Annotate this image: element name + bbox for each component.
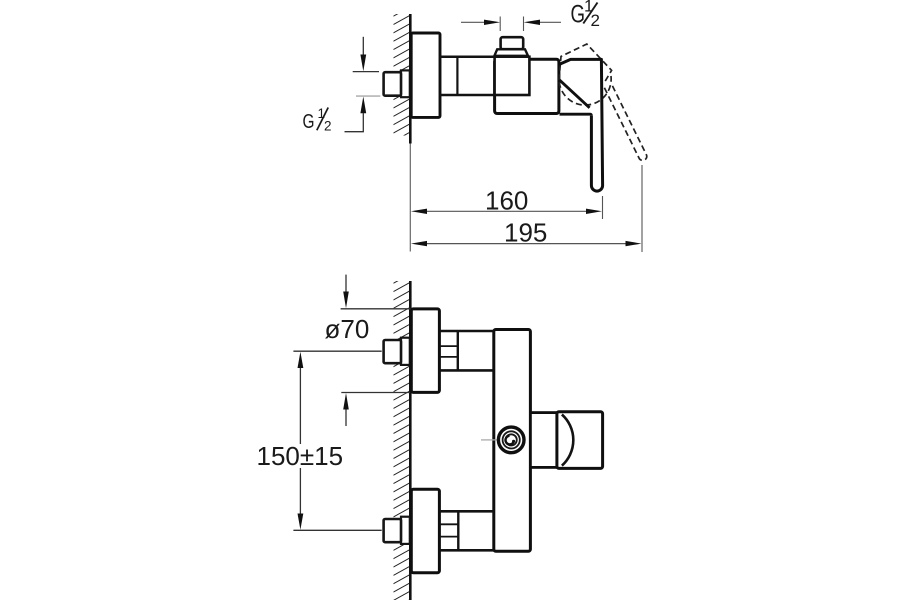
G1/2 dimension right line+arrow: [524, 20, 561, 25]
dashed handle knob alternate position (tilted): [559, 44, 612, 84]
wall extension line down to dimension lines: [409, 144, 411, 252]
screw boss middle ring: [503, 431, 520, 448]
screw inner circle: [506, 434, 517, 445]
svg-text:150±15: 150±15: [257, 441, 344, 471]
extension line at square bottom (light): [356, 95, 380, 97]
extension line left of cap: [499, 17, 501, 32]
escutcheon flange (top view): [411, 33, 440, 117]
lower inlet square (lower view): [384, 519, 401, 542]
upper connection pipe (lower view): [440, 331, 494, 370]
label G1/2 (left): [303, 106, 332, 134]
wall hatching (lower view): [394, 281, 410, 600]
dimension 150±15: [254, 351, 382, 530]
dimension 160: [411, 185, 602, 215]
centerline tick left of screw: [481, 439, 497, 441]
wall hatching (top view): [394, 14, 410, 136]
G1/2 dimension (top, cap width): left line+arrow: [461, 20, 500, 25]
extension line at lever end (160): [602, 196, 604, 219]
svg-text:ø70: ø70: [325, 314, 370, 344]
dimension ø70: top arrow: [343, 275, 349, 309]
upper escutcheon (lower view): [411, 309, 439, 393]
handle underside line to body: [560, 114, 592, 116]
bottom arrow of ø70: [343, 393, 349, 426]
solid handle knob and lever (top view): [559, 59, 603, 191]
lever end curve: [562, 415, 573, 466]
lower inlet collar (lower view): [401, 517, 410, 544]
svg-text:2: 2: [591, 11, 600, 30]
inlet collar at wall (top view): [401, 70, 410, 97]
dashed lever alternate position: [604, 84, 646, 160]
wall face line (lower view): [409, 281, 412, 600]
svg-text:G: G: [303, 111, 315, 133]
lower connection pipe (lower view): [440, 511, 494, 550]
inlet square G1/2 (top view): [384, 72, 401, 96]
upper inlet square (lower view): [384, 340, 401, 363]
handle knob (lower view): [530, 413, 557, 468]
cap flange on body top: [494, 49, 528, 56]
dimension 195: [411, 218, 642, 248]
lower arrow: [360, 97, 366, 132]
screw slot mark: [506, 436, 514, 445]
mixer body block (top view): [495, 59, 559, 113]
wall face line (top view): [409, 14, 412, 144]
dashed circle of handle boss (bottom arc): [559, 76, 611, 105]
upper inlet collar (lower view): [401, 338, 410, 365]
svg-text:2: 2: [324, 119, 332, 134]
handle knob lower-left edge: [559, 80, 589, 108]
extension line at square top: [353, 71, 379, 73]
lower escutcheon (lower view): [411, 489, 439, 573]
extension line at dashed lever end (195): [641, 165, 643, 252]
label G1/2 (top right): [571, 0, 600, 30]
svg-text:160: 160: [485, 185, 528, 215]
extension line escutcheon bottom: [341, 392, 410, 394]
lever end cap (lower view): [557, 412, 603, 469]
svg-text:195: 195: [504, 218, 547, 248]
svg-text:G: G: [571, 0, 586, 28]
screw boss outer ring: [498, 427, 524, 453]
pipe union divider (top view): [456, 57, 458, 95]
extension line right of cap: [523, 17, 525, 32]
G1/2 vertical dimension (left, inlet square): upper arrow: [360, 37, 366, 72]
extension line escutcheon top: [341, 308, 411, 310]
G1/2 outlet cap: [501, 37, 524, 49]
cartridge column (top view): [495, 57, 530, 95]
connection pipe top line (top view): [440, 55, 495, 58]
mixer body (lower view): [494, 330, 531, 552]
leader to label: [345, 131, 364, 133]
connection pipe bottom line (top view): [440, 94, 495, 97]
